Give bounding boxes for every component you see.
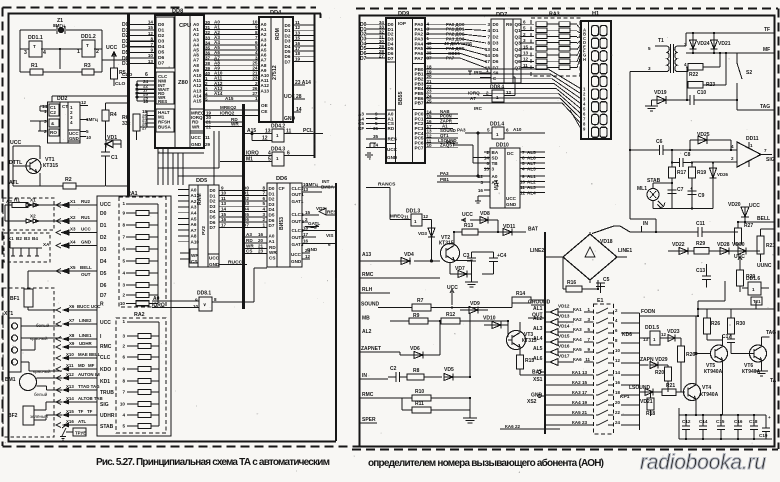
wire DD9 ctrl pins xyxy=(365,114,386,159)
svg-text:17: 17 xyxy=(221,222,227,227)
svg-text:IORQ: IORQ xyxy=(468,91,480,96)
svg-text:A15: A15 xyxy=(225,96,234,101)
svg-text:18: 18 xyxy=(143,99,149,104)
svg-text:TF: TF xyxy=(78,409,84,414)
svg-text:8: 8 xyxy=(615,338,618,343)
svg-text:D0: D0 xyxy=(100,211,107,217)
switch S2 xyxy=(737,53,775,110)
svg-text:1: 1 xyxy=(750,143,753,148)
svg-text:UCC: UCC xyxy=(462,212,473,218)
svg-text:7: 7 xyxy=(588,337,591,342)
svg-text:19: 19 xyxy=(295,56,301,61)
svg-text:VD2: VD2 xyxy=(316,206,325,211)
svg-text:GND: GND xyxy=(284,116,296,122)
resistor R3 xyxy=(82,69,94,75)
svg-text:AL3: AL3 xyxy=(527,185,536,190)
wire RD WR to riser xyxy=(204,122,244,127)
svg-text:BF2: BF2 xyxy=(8,413,18,419)
svg-text:14: 14 xyxy=(615,370,620,375)
svg-text:3: 3 xyxy=(487,22,490,27)
wire bottom rails cap bank xyxy=(679,408,772,439)
svg-text:RES: RES xyxy=(388,137,397,142)
svg-text:14: 14 xyxy=(485,53,491,58)
wire D bus into DD9 xyxy=(366,24,386,58)
svg-text:9: 9 xyxy=(583,127,586,132)
svg-text:BUSA: BUSA xyxy=(158,125,172,130)
svg-text:VD26: VD26 xyxy=(717,172,729,177)
svg-text:GND: GND xyxy=(531,393,543,399)
svg-text:25: 25 xyxy=(427,98,433,103)
power UCC arrow mid xyxy=(450,289,454,305)
svg-text:BM1: BM1 xyxy=(5,377,16,383)
wire NMI cluster xyxy=(137,81,155,101)
diode VD25 xyxy=(690,136,731,150)
svg-text:4: 4 xyxy=(70,120,73,125)
svg-text:D4: D4 xyxy=(100,259,107,265)
svg-text:Q6: Q6 xyxy=(515,59,522,64)
svg-text:R21: R21 xyxy=(766,243,775,249)
wire PB bus to H1 digit pins xyxy=(425,69,562,103)
svg-text:11: 11 xyxy=(585,357,590,362)
svg-text:15: 15 xyxy=(523,44,529,49)
svg-text:R3: R3 xyxy=(84,63,91,69)
svg-text:UCC: UCC xyxy=(10,140,21,146)
wire RMC2 row xyxy=(360,397,412,399)
resistor R28a xyxy=(704,318,723,347)
svg-text:зелёный: зелёный xyxy=(30,413,48,419)
svg-text:КА1: КА1 xyxy=(573,307,582,312)
svg-text:H1: H1 xyxy=(592,11,599,17)
wire KA rows upper to E1 xyxy=(584,312,594,362)
svg-text:OUT1: OUT1 xyxy=(292,192,305,197)
svg-text:UDHR: UDHR xyxy=(100,413,115,419)
svg-text:GND: GND xyxy=(209,262,220,267)
wire XT1 to X7 X8 xyxy=(21,326,62,371)
svg-text:TAG: TAG xyxy=(760,104,770,110)
ground VD19 xyxy=(645,100,658,111)
wire RA3 to H1 segment pins xyxy=(577,25,581,68)
svg-text:BF1: BF1 xyxy=(10,296,20,302)
svg-text:DD11: DD11 xyxy=(746,136,759,142)
wire VT1 base/collector/emitter xyxy=(13,146,40,186)
svg-text:VD10: VD10 xyxy=(483,316,496,322)
svg-text:3: 3 xyxy=(24,50,27,56)
diode VD22 xyxy=(668,248,694,255)
svg-text:15: 15 xyxy=(221,212,227,217)
label X6-X16 rows xyxy=(66,304,103,424)
svg-text:X4: X4 xyxy=(70,240,76,245)
svg-text:1: 1 xyxy=(752,287,755,292)
svg-text:D7: D7 xyxy=(158,61,165,67)
ram DD5 xyxy=(189,185,219,267)
svg-text:C9: C9 xyxy=(698,193,705,199)
svg-text:DD1.1: DD1.1 xyxy=(28,35,43,41)
svg-text:5: 5 xyxy=(122,259,125,264)
svg-text:RES: RES xyxy=(327,210,336,215)
svg-text:UDHR: UDHR xyxy=(79,341,93,346)
opamp DD11 xyxy=(737,142,772,167)
svg-text:Q4: Q4 xyxy=(515,47,522,52)
svg-text:DD1.4: DD1.4 xyxy=(490,122,504,128)
wire: right-side vertical bus of left block xyxy=(335,183,337,441)
svg-text:BELL: BELL xyxy=(80,265,92,270)
svg-text:16: 16 xyxy=(615,380,620,385)
svg-text:DD1.5: DD1.5 xyxy=(645,325,659,331)
svg-text:КА5: КА5 xyxy=(573,347,582,352)
svg-text:UCC: UCC xyxy=(81,227,91,232)
svg-text:4: 4 xyxy=(122,271,125,276)
svg-text:RAM: RAM xyxy=(197,193,203,205)
resistor R20 xyxy=(665,365,672,392)
svg-text:R10: R10 xyxy=(415,389,424,395)
resistor R27 xyxy=(735,222,742,251)
keypad block SB1 xyxy=(97,196,171,436)
svg-text:RO: RO xyxy=(50,130,57,135)
diode VD11 xyxy=(503,229,526,236)
wire ZAPNET row xyxy=(360,351,400,353)
svg-text:VD21: VD21 xyxy=(640,399,653,405)
svg-text:A1: A1 xyxy=(191,193,197,198)
transistor VT4 xyxy=(684,316,701,416)
wire DD4.3 pins xyxy=(220,156,315,162)
label DD8 A pins xyxy=(193,22,202,104)
wire bottom rail opamp area xyxy=(653,208,713,210)
svg-text:UCC: UCC xyxy=(447,285,458,291)
svg-text:A0: A0 xyxy=(191,187,197,192)
svg-text:10: 10 xyxy=(193,304,199,309)
svg-text:GND: GND xyxy=(291,259,302,264)
svg-text:UCC: UCC xyxy=(387,147,398,152)
svg-text:D5: D5 xyxy=(269,213,275,218)
wire DD8 address fan to DD4 xyxy=(204,24,259,101)
svg-text:E1: E1 xyxy=(597,298,604,304)
svg-text:CLO: CLO xyxy=(122,72,133,78)
svg-text:R7: R7 xyxy=(417,298,424,304)
label DD9 lower left xyxy=(387,112,398,160)
network RA3 dashed box xyxy=(531,18,580,76)
svg-text:XT1: XT1 xyxy=(4,311,13,317)
svg-text:MB: MB xyxy=(362,316,370,322)
svg-text:4: 4 xyxy=(43,50,46,56)
svg-text:VD21: VD21 xyxy=(718,41,731,47)
svg-text:1: 1 xyxy=(496,95,499,100)
svg-text:MF: MF xyxy=(88,363,95,368)
capacitor C13 xyxy=(702,264,711,288)
svg-text:UCC: UCC xyxy=(291,252,302,257)
label AL and VD12-VD17 KA xyxy=(533,306,543,362)
svg-text:AL4: AL4 xyxy=(533,336,543,342)
capacitor C10 xyxy=(690,95,737,105)
svg-text:20: 20 xyxy=(615,400,620,405)
transistor VT3 xyxy=(507,331,526,350)
svg-text:RU2: RU2 xyxy=(81,199,90,204)
svg-text:B2: B2 xyxy=(16,236,22,241)
svg-text:9: 9 xyxy=(522,174,525,179)
svg-text:R16: R16 xyxy=(567,280,576,286)
svg-text:5: 5 xyxy=(122,424,125,429)
bridge rectifier VD18 xyxy=(545,232,627,283)
ppi DD9 xyxy=(386,18,425,163)
svg-text:2: 2 xyxy=(122,293,125,298)
svg-text:AL7: AL7 xyxy=(527,161,536,166)
svg-text:WR: WR xyxy=(231,122,239,127)
svg-text:КА5 21: КА5 21 xyxy=(572,410,588,415)
svg-text:2: 2 xyxy=(11,336,14,341)
left schematic solid frame xyxy=(9,14,337,442)
svg-text:10: 10 xyxy=(520,180,526,185)
resistor R6 33k xyxy=(133,114,140,131)
svg-text:14: 14 xyxy=(221,207,227,212)
wire DD5-DD6 data xyxy=(219,190,267,227)
svg-text:RMC: RMC xyxy=(100,344,112,350)
svg-text:AL5: AL5 xyxy=(527,150,536,155)
svg-text:R1: R1 xyxy=(14,198,20,203)
svg-text:2: 2 xyxy=(486,150,489,155)
svg-text:IN: IN xyxy=(362,373,367,379)
svg-text:17: 17 xyxy=(485,59,491,64)
svg-text:ATL: ATL xyxy=(9,180,20,186)
svg-text:8: 8 xyxy=(262,185,265,190)
svg-text:29: 29 xyxy=(205,142,211,147)
svg-text:11: 11 xyxy=(205,135,210,140)
gate DD1.2 xyxy=(82,40,95,57)
svg-text:T: T xyxy=(33,44,36,49)
svg-text:BA: BA xyxy=(492,150,499,155)
svg-text:C13: C13 xyxy=(696,268,705,274)
svg-text:MF: MF xyxy=(763,47,770,53)
svg-text:RA1: RA1 xyxy=(127,191,138,197)
gate DD4.2 xyxy=(272,129,284,142)
svg-text:T: T xyxy=(86,43,89,48)
svg-text:VIS: VIS xyxy=(326,233,333,238)
svg-text:ZAPNET: ZAPNET xyxy=(361,346,381,352)
resistor R18 xyxy=(647,392,654,416)
svg-text:M1: M1 xyxy=(246,157,253,163)
svg-text:VT4: VT4 xyxy=(702,385,711,391)
svg-text:AL2: AL2 xyxy=(527,180,536,185)
wire opamp inputs xyxy=(672,150,737,162)
svg-text:13: 13 xyxy=(148,59,154,64)
svg-text:6: 6 xyxy=(486,161,489,166)
svg-text:DD9: DD9 xyxy=(398,11,409,17)
svg-text:BAT: BAT xyxy=(528,227,538,233)
svg-text:D5: D5 xyxy=(158,50,165,56)
svg-text:24: 24 xyxy=(615,420,620,425)
svg-text:VD25: VD25 xyxy=(697,132,710,138)
svg-text:DD4.2: DD4.2 xyxy=(271,124,285,130)
counter DD2 xyxy=(48,102,81,143)
svg-text:7: 7 xyxy=(487,34,490,39)
gate DD1.4 xyxy=(465,127,545,139)
svg-text:VD22: VD22 xyxy=(672,242,685,248)
svg-text:9: 9 xyxy=(150,48,153,53)
svg-text:AL4: AL4 xyxy=(527,191,536,196)
svg-text:BELL: BELL xyxy=(757,216,770,222)
svg-text:PA3: PA3 xyxy=(440,171,449,176)
wire C11 row xyxy=(592,226,738,234)
svg-text:T21: T21 xyxy=(753,299,761,304)
resistor R5 xyxy=(111,68,118,79)
svg-text:2: 2 xyxy=(523,32,526,37)
svg-text:VD11: VD11 xyxy=(503,224,515,230)
svg-text:C14: C14 xyxy=(699,419,708,424)
svg-text:11: 11 xyxy=(404,215,409,220)
svg-text:10: 10 xyxy=(221,191,227,196)
lamp ML1 xyxy=(647,189,665,209)
svg-text:D7: D7 xyxy=(100,293,107,299)
svg-text:OUT2: OUT2 xyxy=(292,219,305,224)
svg-text:4: 4 xyxy=(262,207,265,212)
network RA2 dashed box xyxy=(116,318,166,433)
svg-text:D2: D2 xyxy=(210,199,216,204)
capacitor C9 xyxy=(688,191,697,195)
svg-text:D7: D7 xyxy=(388,56,394,61)
svg-text:D2: D2 xyxy=(100,235,107,241)
svg-text:PA3: PA3 xyxy=(457,128,466,133)
svg-text:D1: D1 xyxy=(269,191,275,196)
capacitor C15 xyxy=(717,415,725,439)
label pin numbers D bus xyxy=(148,20,154,64)
svg-text:D6: D6 xyxy=(493,59,499,64)
capacitor C3 xyxy=(454,252,476,271)
svg-text:R8: R8 xyxy=(413,368,420,374)
diode VD4 xyxy=(401,258,410,265)
wire CLO from R5 to bus xyxy=(102,60,127,86)
wire PCL xyxy=(244,134,324,141)
svg-text:1: 1 xyxy=(262,222,265,227)
svg-text:OE: OE xyxy=(261,103,268,108)
svg-text:ML1: ML1 xyxy=(637,186,647,192)
wire MF row xyxy=(686,52,775,54)
dashed page border left block xyxy=(3,8,363,447)
capacitor C19 electrolytic xyxy=(762,415,770,439)
svg-text:D7: D7 xyxy=(285,59,291,64)
right schematic solid frame xyxy=(360,16,775,447)
svg-text:VD8: VD8 xyxy=(480,211,490,217)
svg-text:12: 12 xyxy=(423,214,429,219)
svg-text:5: 5 xyxy=(522,161,525,166)
svg-text:3: 3 xyxy=(588,317,591,322)
svg-text:4: 4 xyxy=(487,28,490,33)
label DD6 mid pins xyxy=(246,232,264,254)
svg-text:R20: R20 xyxy=(655,370,664,376)
svg-text:PA7: PA7 xyxy=(446,56,455,61)
svg-text:B4: B4 xyxy=(32,236,38,241)
svg-text:C15: C15 xyxy=(716,419,725,424)
svg-text:1: 1 xyxy=(44,109,47,114)
svg-text:14: 14 xyxy=(484,156,490,161)
svg-text:MD: MD xyxy=(78,363,85,368)
wire DD6 right stubs xyxy=(302,187,336,259)
svg-text:4: 4 xyxy=(11,360,14,365)
diode VD6 xyxy=(400,321,440,359)
transformer T1 xyxy=(655,44,688,73)
svg-text:10: 10 xyxy=(615,348,620,353)
svg-text:D4: D4 xyxy=(269,207,275,212)
svg-text:X13: X13 xyxy=(66,384,74,389)
svg-text:D6: D6 xyxy=(210,220,216,225)
svg-text:R2: R2 xyxy=(65,177,72,183)
svg-text:23: 23 xyxy=(258,249,264,254)
svg-text:PA2: PA2 xyxy=(446,140,455,145)
svg-text:OUT: OUT xyxy=(81,272,91,277)
svg-text:красный: красный xyxy=(33,368,51,374)
svg-text:2: 2 xyxy=(731,156,734,161)
svg-text:VD18: VD18 xyxy=(600,239,613,245)
svg-text:R14: R14 xyxy=(516,291,525,297)
svg-text:KDO: KDO xyxy=(100,367,111,373)
svg-text:X10: X10 xyxy=(66,352,74,357)
svg-text:AL2: AL2 xyxy=(362,329,372,335)
svg-text:A1: A1 xyxy=(269,239,275,244)
svg-text:D0: D0 xyxy=(269,186,275,191)
svg-text:RD: RD xyxy=(246,238,253,243)
label PA net names xyxy=(444,22,473,61)
svg-text:13: 13 xyxy=(265,129,271,135)
svg-text:XS1: XS1 xyxy=(533,377,543,383)
resistor R14 xyxy=(512,297,545,308)
svg-text:D5: D5 xyxy=(100,271,107,277)
svg-text:КА2: КА2 xyxy=(573,317,582,322)
svg-text:D4: D4 xyxy=(158,44,165,50)
svg-text:23 A14: 23 A14 xyxy=(295,80,311,86)
transistor VT6 xyxy=(731,337,770,371)
svg-text:WR: WR xyxy=(269,250,277,255)
svg-text:GND: GND xyxy=(387,155,398,160)
svg-text:C5: C5 xyxy=(603,277,610,283)
diode VD26 xyxy=(710,163,717,209)
svg-text:VD30: VD30 xyxy=(732,242,745,248)
resistor R17 xyxy=(669,150,676,209)
resistor R11 xyxy=(402,398,470,413)
transistor VT5 xyxy=(696,335,728,415)
svg-text:3: 3 xyxy=(122,283,125,288)
svg-text:X1: X1 xyxy=(8,236,14,241)
resistor R22 xyxy=(686,53,720,70)
label PC net names xyxy=(438,109,457,148)
svg-text:GATL: GATL xyxy=(308,221,320,226)
connector XS1 XS2 xyxy=(538,370,545,397)
svg-text:IORQ2: IORQ2 xyxy=(220,111,235,116)
svg-text:D0: D0 xyxy=(158,22,165,28)
svg-text:X14: X14 xyxy=(66,396,74,401)
svg-text:D0: D0 xyxy=(243,185,249,190)
gate DD1.3 xyxy=(366,188,432,229)
svg-text:BAT: BAT xyxy=(532,370,542,376)
svg-text:RA2: RA2 xyxy=(134,312,145,318)
svg-text:DD4: DD4 xyxy=(270,10,282,16)
wire DD2 top to oscillator xyxy=(52,96,127,102)
svg-text:SIG: SIG xyxy=(100,402,109,408)
wire top rail 301 309 xyxy=(698,281,775,318)
svg-text:5: 5 xyxy=(487,128,490,133)
wire IN row xyxy=(360,378,388,380)
relay block E1 dashed xyxy=(594,304,614,434)
svg-text:6: 6 xyxy=(262,196,265,201)
svg-text:VD29: VD29 xyxy=(655,357,668,363)
wire R4 R6 branch xyxy=(106,103,137,140)
svg-text:3: 3 xyxy=(262,212,265,217)
capacitor C7 xyxy=(668,190,677,194)
svg-text:SPER: SPER xyxy=(362,417,376,423)
svg-text:1: 1 xyxy=(414,219,417,224)
svg-text:R30: R30 xyxy=(736,321,745,327)
svg-text:TA: TA xyxy=(770,378,777,384)
svg-text:WR: WR xyxy=(191,253,199,258)
svg-text:1МГц: 1МГц xyxy=(306,182,318,187)
svg-text:radiobooka.ru: radiobooka.ru xyxy=(640,451,766,474)
svg-text:6: 6 xyxy=(145,72,148,78)
